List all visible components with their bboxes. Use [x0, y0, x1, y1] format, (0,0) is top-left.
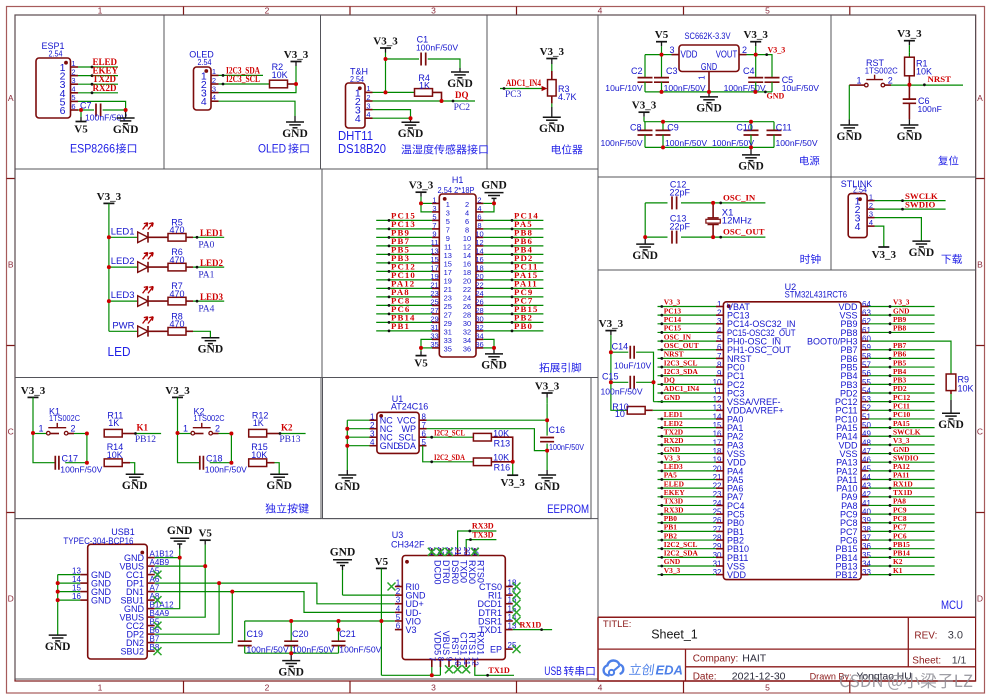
wire — [658, 504, 717, 506]
wire — [885, 84, 891, 86]
svg-text:GND: GND — [278, 666, 304, 678]
wire — [193, 236, 224, 238]
svg-text:V3_3: V3_3 — [535, 381, 560, 393]
net PC14 — [660, 315, 681, 325]
wire — [32, 398, 34, 434]
resistor R14 — [104, 442, 123, 467]
wire — [875, 200, 946, 202]
net PC12 — [889, 393, 911, 403]
svg-text:47: 47 — [862, 447, 871, 456]
net PB8 — [511, 228, 533, 239]
svg-text:44: 44 — [862, 473, 871, 482]
wire — [230, 434, 232, 463]
label ESP1 — [41, 41, 64, 59]
svg-text:100nF/50V: 100nF/50V — [601, 386, 643, 396]
svg-text:GND: GND — [447, 78, 473, 90]
svg-text:2: 2 — [888, 76, 893, 86]
wire — [869, 470, 935, 472]
junction — [660, 53, 664, 57]
svg-text:C3: C3 — [666, 66, 678, 76]
svg-text:V3_3: V3_3 — [664, 453, 681, 462]
wire — [219, 83, 271, 85]
wire — [219, 101, 296, 116]
wire bottom — [245, 652, 339, 654]
wire — [58, 582, 80, 584]
wire — [33, 433, 46, 435]
net LED3 — [660, 462, 683, 472]
svg-text:CTS1: CTS1 — [458, 632, 468, 655]
svg-text:3.0: 3.0 — [948, 629, 963, 641]
junction — [545, 449, 549, 453]
svg-text:RXD0: RXD0 — [467, 560, 477, 584]
power V3_3 — [535, 381, 560, 404]
section box POT — [487, 15, 598, 169]
junction — [907, 83, 911, 87]
svg-text:C11: C11 — [776, 122, 792, 132]
svg-text:I2C3_SDA: I2C3_SDA — [664, 367, 699, 376]
ground — [122, 474, 148, 492]
svg-text:52: 52 — [862, 404, 871, 413]
wire — [869, 323, 935, 325]
wire — [386, 58, 420, 60]
svg-text:PA12: PA12 — [893, 462, 910, 471]
svg-text:CH342F: CH342F — [391, 540, 425, 550]
label USB1 — [63, 527, 134, 546]
net PA5 — [511, 219, 533, 230]
wire — [869, 487, 935, 489]
wire — [148, 236, 168, 238]
label Date — [693, 670, 786, 682]
svg-text:PC11: PC11 — [893, 402, 910, 411]
wire — [869, 427, 935, 429]
capacitor C7 — [80, 101, 127, 123]
svg-text:PA4: PA4 — [198, 304, 214, 314]
wire — [551, 103, 553, 107]
wire — [78, 109, 94, 111]
label SC662K-3.3V — [685, 31, 732, 42]
wire — [658, 392, 717, 394]
svg-text:DTR0: DTR0 — [441, 560, 451, 584]
no-connect — [428, 548, 436, 556]
wire — [195, 433, 204, 435]
svg-text:TX2D: TX2D — [664, 427, 683, 436]
svg-text:PC7: PC7 — [893, 523, 907, 532]
pin 3 — [669, 45, 679, 55]
wire — [376, 279, 432, 281]
wire — [869, 435, 935, 437]
wire — [950, 394, 952, 400]
svg-text:Sheet_1: Sheet_1 — [651, 628, 698, 642]
label U1 — [391, 394, 428, 412]
svg-text:21: 21 — [453, 547, 462, 556]
power V5 — [414, 348, 428, 370]
svg-text:V5: V5 — [414, 358, 428, 370]
junction — [609, 380, 613, 384]
svg-text:Company:: Company: — [693, 654, 739, 665]
svg-text:PC10: PC10 — [893, 410, 911, 419]
wire — [483, 339, 494, 348]
junction — [660, 90, 664, 94]
svg-text:2: 2 — [215, 424, 220, 434]
svg-text:EEPROM: EEPROM — [547, 502, 589, 516]
wire — [611, 381, 628, 383]
wire — [33, 434, 55, 463]
junction — [379, 619, 383, 623]
svg-text:PB0: PB0 — [664, 514, 677, 523]
svg-text:V3_3: V3_3 — [743, 29, 768, 41]
net SWCLK — [901, 191, 938, 202]
ground — [398, 118, 424, 140]
net K2 — [889, 557, 903, 567]
wire — [155, 566, 206, 617]
wire — [483, 236, 543, 238]
svg-text:GND: GND — [330, 547, 356, 559]
net PC11 — [511, 262, 539, 273]
no-connect — [513, 600, 521, 608]
svg-text:1: 1 — [717, 300, 722, 309]
ground — [481, 348, 507, 372]
net PC13 — [660, 306, 681, 316]
svg-text:37: 37 — [862, 533, 871, 542]
wire — [193, 300, 224, 302]
junction — [337, 619, 341, 623]
svg-text:GND: GND — [909, 247, 935, 259]
svg-text:20: 20 — [462, 547, 471, 556]
svg-text:49: 49 — [862, 430, 871, 439]
connector OLED — [194, 67, 212, 110]
power V5 — [655, 29, 669, 54]
svg-text:1: 1 — [183, 424, 188, 434]
wiper arrow — [542, 86, 548, 91]
resistor R2 — [270, 62, 297, 88]
no-connect — [513, 591, 521, 599]
svg-text:470: 470 — [169, 225, 184, 235]
svg-text:1TS002C: 1TS002C — [865, 65, 898, 75]
svg-text:59: 59 — [862, 343, 871, 352]
svg-text:K2: K2 — [281, 422, 293, 432]
junction — [337, 628, 341, 632]
svg-text:TX3D: TX3D — [664, 497, 683, 506]
section title OLED接口 — [258, 142, 309, 156]
wire — [58, 574, 80, 576]
net EKEY — [91, 66, 119, 77]
svg-text:7: 7 — [427, 657, 436, 662]
net SWDIO — [889, 453, 919, 463]
wire — [186, 236, 193, 238]
svg-text:10: 10 — [615, 409, 625, 419]
wire — [653, 409, 716, 411]
svg-text:45: 45 — [862, 464, 871, 473]
net RX1D — [889, 479, 913, 489]
svg-text:K1: K1 — [893, 566, 903, 575]
watermark CSDN — [840, 673, 972, 690]
wire — [421, 202, 432, 204]
svg-text:V3_3: V3_3 — [500, 477, 525, 489]
wire — [275, 463, 280, 475]
svg-text:50: 50 — [862, 421, 871, 430]
net I2C3_SCL — [222, 74, 260, 85]
net PB4 — [511, 245, 533, 256]
net K1 — [134, 422, 156, 445]
wire — [103, 109, 126, 111]
svg-text:10K: 10K — [107, 450, 123, 460]
svg-text:USB: USB — [544, 664, 562, 678]
svg-text:ELED: ELED — [664, 479, 684, 488]
svg-text:1: 1 — [698, 75, 707, 80]
svg-text:60: 60 — [862, 335, 871, 344]
svg-text:PB8: PB8 — [893, 324, 906, 333]
wire — [74, 433, 87, 435]
wire — [658, 444, 717, 446]
svg-text:RX3D: RX3D — [664, 505, 684, 514]
wire — [658, 539, 717, 541]
net GND — [889, 306, 910, 316]
svg-text:C16: C16 — [549, 425, 566, 435]
svg-text:10uF/50V: 10uF/50V — [782, 83, 820, 93]
svg-text:54: 54 — [862, 386, 871, 395]
net I2C2_SCL — [660, 540, 697, 550]
wire — [155, 592, 233, 643]
svg-text:RX3D: RX3D — [472, 522, 494, 531]
svg-text:10uF/10V: 10uF/10V — [614, 361, 652, 371]
svg-text:17: 17 — [713, 438, 722, 447]
junction — [511, 460, 515, 464]
wire — [109, 236, 138, 238]
svg-text:GND: GND — [113, 124, 139, 136]
svg-text:V5: V5 — [655, 29, 669, 41]
svg-text:PA15: PA15 — [893, 419, 910, 428]
svg-text:8: 8 — [436, 657, 445, 662]
svg-text:19: 19 — [713, 456, 722, 465]
svg-text:46: 46 — [862, 456, 871, 465]
svg-text:LED: LED — [108, 344, 131, 359]
resistor R7 — [168, 281, 186, 305]
svg-text:51: 51 — [862, 412, 871, 421]
svg-text:4: 4 — [598, 6, 603, 16]
svg-text:GND: GND — [198, 344, 224, 356]
svg-text:42: 42 — [862, 490, 871, 499]
svg-text:10K: 10K — [958, 384, 974, 394]
wire — [483, 203, 494, 212]
no-connect — [154, 622, 162, 630]
power V3_3 — [632, 100, 657, 122]
wire — [500, 88, 543, 90]
junction — [85, 461, 89, 465]
capacitor C9 — [656, 122, 708, 148]
label OLED — [189, 50, 214, 67]
connector T&H — [346, 83, 366, 128]
svg-text:V3_3: V3_3 — [21, 385, 46, 397]
wire — [376, 245, 432, 247]
svg-text:SWDIO: SWDIO — [893, 453, 919, 462]
svg-text:LED1: LED1 — [200, 228, 224, 238]
wire — [869, 574, 935, 576]
svg-text:V5: V5 — [74, 124, 88, 136]
net PB2 — [511, 313, 533, 324]
wire — [78, 66, 118, 68]
junction — [56, 590, 60, 594]
wire — [78, 101, 126, 110]
wire — [908, 76, 910, 85]
junction — [430, 673, 434, 677]
wire — [427, 429, 548, 451]
net LED3 — [196, 292, 224, 315]
wire — [219, 74, 264, 76]
resistor R10 — [612, 402, 645, 419]
svg-text:27: 27 — [713, 525, 722, 534]
net I2C3_SDA — [660, 367, 698, 377]
junction — [56, 581, 60, 585]
svg-text:10: 10 — [453, 657, 462, 666]
section title 独立按键 — [265, 503, 308, 513]
wire — [658, 306, 717, 308]
svg-text:V3_3: V3_3 — [409, 180, 434, 192]
section box CLK — [598, 177, 831, 270]
power V3_3 — [897, 28, 922, 52]
wire — [439, 667, 441, 675]
wire VIO rail — [245, 620, 395, 622]
wire — [546, 403, 548, 420]
svg-text:GND: GND — [938, 419, 964, 431]
wire — [869, 306, 935, 308]
junction — [31, 431, 35, 435]
section box DHT — [321, 15, 488, 169]
svg-text:C21: C21 — [339, 629, 356, 639]
net I2C2_SDA — [430, 453, 465, 463]
svg-text:56: 56 — [862, 369, 871, 378]
wire — [376, 236, 432, 238]
svg-text:PC3: PC3 — [505, 90, 522, 100]
resistor R11 — [104, 411, 123, 437]
svg-text:10K: 10K — [251, 450, 267, 460]
wire — [869, 357, 935, 359]
wire — [891, 84, 963, 86]
wire — [869, 383, 935, 385]
svg-text:28: 28 — [713, 533, 722, 542]
svg-text:C20: C20 — [292, 629, 309, 639]
no-connect — [454, 665, 462, 673]
wire — [428, 59, 460, 68]
svg-text:24: 24 — [713, 499, 722, 508]
no-connect — [445, 548, 453, 556]
wire — [869, 366, 935, 368]
svg-text:100nF/50V: 100nF/50V — [549, 442, 584, 452]
net PA8 — [388, 287, 410, 298]
svg-text:GND: GND — [45, 641, 71, 653]
svg-text:LED3: LED3 — [200, 292, 224, 302]
svg-text:DS18B20: DS18B20 — [338, 141, 386, 156]
junction — [345, 435, 349, 439]
svg-text:I2C2_SCL: I2C2_SCL — [434, 428, 465, 437]
net LED2 — [196, 258, 224, 281]
net PC8 — [889, 514, 907, 524]
svg-text:VBUS: VBUS — [441, 631, 451, 656]
wire — [662, 54, 672, 56]
net OSC_OUT — [719, 227, 764, 239]
section title MCU — [941, 598, 963, 612]
svg-text:2: 2 — [70, 424, 75, 434]
svg-text:1K: 1K — [253, 418, 264, 428]
svg-text:20: 20 — [713, 464, 722, 473]
net PA8 — [889, 497, 907, 507]
junction — [409, 116, 413, 120]
svg-text:D: D — [8, 594, 14, 604]
IC U1 AT24C16 — [377, 412, 419, 453]
power V3_3 — [284, 49, 309, 84]
svg-text:4: 4 — [355, 113, 361, 125]
capacitor C8 — [601, 122, 653, 148]
net PC12 — [388, 262, 416, 273]
LED LED3 — [111, 287, 153, 307]
wire — [423, 446, 473, 462]
power V3_3 — [599, 318, 624, 352]
svg-text:LED3: LED3 — [664, 462, 683, 471]
ground flipped — [330, 547, 356, 570]
svg-text:LED1: LED1 — [111, 226, 135, 237]
svg-text:57: 57 — [862, 360, 871, 369]
svg-text:32: 32 — [713, 568, 722, 577]
junction — [289, 619, 293, 623]
wire — [658, 548, 717, 550]
junction — [609, 350, 613, 354]
power V3_3 — [540, 46, 565, 64]
section title ESP8266接口 — [70, 142, 136, 156]
net ELED — [660, 479, 684, 489]
wire — [658, 453, 717, 455]
wire — [427, 436, 474, 438]
ground — [335, 470, 361, 493]
wire — [68, 433, 74, 435]
svg-text:K1: K1 — [137, 422, 149, 432]
wire — [658, 323, 717, 325]
svg-text:RX2D: RX2D — [664, 436, 684, 445]
power V3_3 — [409, 180, 434, 204]
wire — [376, 330, 432, 332]
svg-text:TYPEC-304-BCP16: TYPEC-304-BCP16 — [63, 536, 133, 546]
wire — [342, 570, 344, 595]
wire — [869, 522, 935, 524]
svg-text:RTS0: RTS0 — [476, 560, 486, 583]
junction — [661, 145, 665, 149]
net PB14 — [388, 313, 416, 324]
wire — [661, 82, 663, 92]
svg-text:3: 3 — [431, 6, 436, 16]
svg-text:MCU: MCU — [941, 598, 963, 612]
wire — [421, 203, 432, 212]
wire — [347, 419, 369, 421]
ground — [539, 107, 565, 135]
wire — [644, 82, 646, 92]
capacitor C3 — [654, 66, 706, 93]
svg-text:C2: C2 — [631, 66, 643, 76]
svg-text:35: 35 — [444, 344, 452, 353]
net DQ — [452, 90, 471, 113]
wire — [483, 245, 543, 247]
junction — [229, 432, 233, 436]
wire — [343, 594, 395, 596]
junction — [107, 299, 111, 303]
net LED1 — [196, 228, 224, 251]
LED LED1 — [111, 223, 153, 243]
junction — [178, 556, 182, 560]
no-connect — [471, 548, 479, 556]
ground — [837, 119, 863, 142]
wire — [347, 445, 369, 447]
net PA11 — [511, 279, 538, 290]
svg-text:100nF/50V: 100nF/50V — [776, 138, 818, 148]
capacitor C14 — [612, 341, 652, 370]
junction — [203, 564, 207, 568]
